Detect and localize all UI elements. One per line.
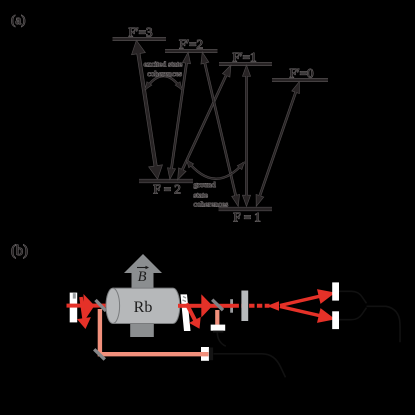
svg-text:B: B xyxy=(138,269,147,285)
svg-text:F′=3: F′=3 xyxy=(129,25,153,40)
feedback beam path (salmon) xyxy=(100,309,209,354)
svg-text:coherences: coherences xyxy=(147,69,182,78)
transition F=1 to F'=0 xyxy=(256,83,299,206)
beam direction arrow (left) xyxy=(84,294,95,322)
svg-text:F′=1: F′=1 xyxy=(233,50,257,65)
beam direction arrow (right) xyxy=(201,294,212,317)
dashed beam to analyser xyxy=(234,304,270,308)
joined signal wire xyxy=(367,306,401,342)
split beam to upper photodiode xyxy=(280,289,335,305)
wire from upper photodiode xyxy=(339,291,367,303)
svg-text:coherences: coherences xyxy=(194,200,229,209)
ground state coherences arc xyxy=(187,161,244,179)
svg-text:F = 2: F = 2 xyxy=(153,182,181,197)
reflected beam down arrow (right) xyxy=(187,304,201,329)
svg-text:Rb: Rb xyxy=(134,299,153,316)
retro mirror substrate (white) xyxy=(201,347,209,361)
beam splitter plate xyxy=(212,300,223,310)
pump transition F=2 to F'=3 (thick double arrow) xyxy=(132,41,162,179)
transition F=1 to F'=2 xyxy=(201,53,239,206)
wire from photodiode under splitter xyxy=(217,333,226,347)
lower photodiode xyxy=(332,311,339,329)
reflected beam down arrow (left) xyxy=(77,297,91,329)
svg-text:F = 1: F = 1 xyxy=(233,210,261,225)
transition F=1 to F'=1 xyxy=(243,66,250,206)
pickoff mirror xyxy=(96,300,107,311)
level F'=1 xyxy=(219,62,272,66)
bottom-left mirror xyxy=(94,349,105,359)
retro-reflected beam arrow xyxy=(267,301,279,310)
cell holder below xyxy=(130,323,154,337)
svg-text:ground: ground xyxy=(194,180,216,189)
retro mirror face xyxy=(209,348,213,361)
beam after cell xyxy=(178,304,234,308)
Wollaston prism xyxy=(241,291,248,322)
level F'=2 xyxy=(165,49,218,53)
level F=1 xyxy=(219,207,273,211)
svg-text:(b): (b) xyxy=(11,243,28,259)
wire from lower photodiode xyxy=(339,308,367,320)
Rb vapour cell xyxy=(106,288,180,323)
level F=2 xyxy=(139,179,193,183)
svg-text:F′=0: F′=0 xyxy=(290,66,314,81)
small gray marks on plate xyxy=(183,297,187,302)
wire along bottom xyxy=(214,354,286,378)
half-wave plate (white, tilted) xyxy=(181,294,191,331)
photodiode under splitter xyxy=(211,325,226,333)
label B vector xyxy=(137,266,149,285)
small gray mark on polarizer xyxy=(73,293,76,298)
svg-text:state: state xyxy=(194,190,209,199)
magnetic field arrow B xyxy=(124,254,162,289)
transition F=2 to F'=1 xyxy=(178,66,231,179)
split beam to lower photodiode xyxy=(280,307,335,323)
svg-text:excited state: excited state xyxy=(144,59,183,68)
excited state coherences arc xyxy=(146,76,182,89)
svg-text:(a): (a) xyxy=(11,12,25,27)
level F'=3 xyxy=(113,37,167,41)
transition F=2 to F'=2 xyxy=(168,53,190,179)
svg-text:F′=2: F′=2 xyxy=(179,37,203,52)
small lens xyxy=(230,299,233,313)
input laser beam xyxy=(67,304,113,308)
level F'=0 xyxy=(272,78,328,82)
beam down from splitter xyxy=(215,310,219,325)
input polarizer (white) xyxy=(70,293,78,323)
upper photodiode xyxy=(332,282,339,300)
